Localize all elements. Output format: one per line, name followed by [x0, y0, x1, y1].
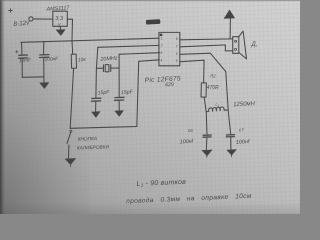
capacitor C2 plates — [40, 55, 49, 58]
ground (below regulator) — [59, 26, 61, 29]
capacitor C2 100nF branch — [43, 42, 45, 55]
wire pin5 to resistor R2 — [181, 60, 205, 83]
wire terminal to regulator — [33, 18, 53, 20]
wire pin6 diagonal down to L1 right / C7 — [180, 53, 230, 134]
crystal X1 20MHz — [96, 67, 103, 69]
terminal circle — [29, 17, 33, 21]
Vcc arrow (supply to speaker) — [229, 18, 231, 39]
resistor R1 10k branch from rail — [71, 41, 74, 54]
switch S1 calibration button — [70, 130, 72, 132]
IC U2 PIC12F675 box — [159, 32, 180, 65]
capacitor C6 plates — [203, 135, 211, 137]
node junction on rail (100n branch) — [43, 41, 45, 43]
ground (button) — [65, 158, 75, 164]
regulator U1 AMS1117 box — [53, 11, 68, 26]
capacitor C4 15pF plates — [115, 97, 124, 100]
speaker D1 terminal box — [233, 37, 239, 54]
wire bottom joining caps — [22, 76, 44, 79]
capacitor C7 plates — [226, 135, 234, 137]
speaker D1 cone — [239, 31, 247, 59]
wire L1 left down to C6 — [205, 112, 208, 135]
capacitor C1 polarity plus — [15, 50, 18, 53]
capacitor C1 plates — [19, 55, 28, 58]
resistor R1 box — [71, 54, 76, 68]
pin 1 marker dot — [160, 34, 163, 37]
wire MCLR bottom run — [70, 127, 137, 129]
lighting / photo edges — [0, 0, 90, 214]
resistor R2 470R box — [201, 83, 206, 97]
ground (C4) — [115, 111, 123, 117]
ink smudge near top — [146, 19, 161, 24]
ground (caps C1 C2) — [40, 83, 49, 89]
plus sign of supply input — [9, 9, 13, 13]
wire 3.3V rail — [21, 38, 159, 42]
capacitor C3 15pF plates — [92, 98, 101, 101]
ground (C3) — [92, 112, 100, 118]
wire up to pin4 — [137, 60, 160, 127]
ground (C7) — [227, 150, 236, 156]
wire regulator output down to rail — [67, 19, 72, 41]
IC pin numbers — [160, 36, 178, 63]
capacitor C1 electrolytic branch wire — [21, 42, 24, 55]
wire crystal right node to pin3 — [119, 53, 160, 55]
ground (C6) — [202, 150, 212, 156]
wire crystal left node to pin2 — [98, 45, 159, 47]
wire pin8 to speaker top / Vcc — [180, 38, 233, 41]
wire pin7 to speaker bottom — [180, 45, 233, 51]
node junction on rail (regulator/10k) — [71, 40, 73, 42]
inductor L1 coil — [206, 107, 228, 112]
